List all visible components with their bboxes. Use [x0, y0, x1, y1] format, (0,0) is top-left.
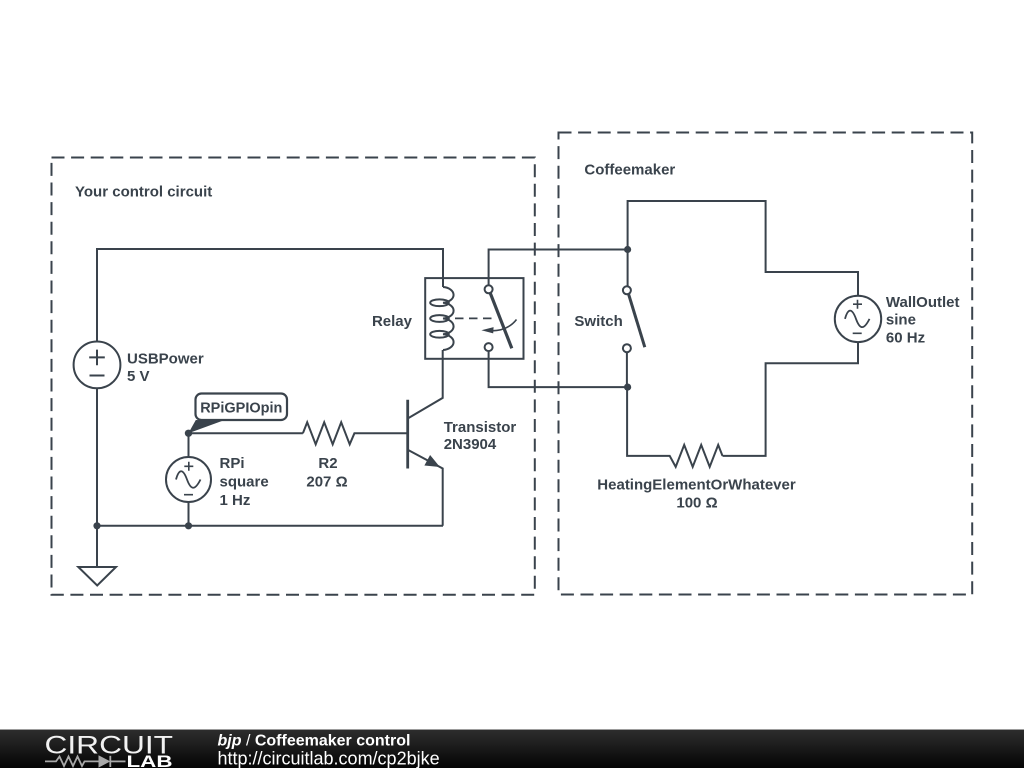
svg-text:sine: sine — [886, 312, 916, 329]
svg-text:Coffeemaker: Coffeemaker — [584, 162, 675, 179]
svg-text:Your control circuit: Your control circuit — [75, 184, 212, 201]
svg-text:1 Hz: 1 Hz — [220, 492, 251, 509]
svg-text:R2: R2 — [318, 455, 337, 472]
svg-text:Switch: Switch — [574, 313, 622, 330]
svg-text:LAB: LAB — [127, 753, 173, 768]
svg-text:60 Hz: 60 Hz — [886, 329, 925, 346]
svg-text:RPiGPIOpin: RPiGPIOpin — [200, 401, 282, 417]
svg-text:USBPower: USBPower — [127, 351, 204, 368]
svg-text:square: square — [220, 474, 269, 491]
svg-text:Transistor: Transistor — [444, 419, 517, 436]
svg-text:Relay: Relay — [372, 313, 413, 330]
svg-text:5 V: 5 V — [127, 368, 150, 385]
svg-text:207 Ω: 207 Ω — [306, 474, 347, 491]
svg-text:WallOutlet: WallOutlet — [886, 294, 960, 311]
svg-text:100 Ω: 100 Ω — [676, 495, 717, 512]
svg-text:http://circuitlab.com/cp2bjke: http://circuitlab.com/cp2bjke — [218, 748, 440, 768]
svg-text:2N3904: 2N3904 — [444, 436, 497, 453]
svg-text:RPi: RPi — [220, 455, 245, 472]
svg-text:HeatingElementOrWhatever: HeatingElementOrWhatever — [597, 477, 796, 494]
svg-text:bjp / Coffeemaker control: bjp / Coffeemaker control — [218, 732, 411, 749]
